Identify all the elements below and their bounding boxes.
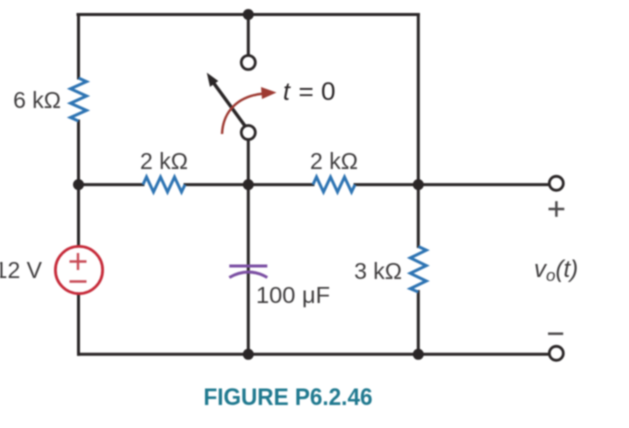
svg-text:FIGURE P6.2.46: FIGURE P6.2.46	[204, 384, 373, 411]
svg-text:6 kΩ: 6 kΩ	[13, 87, 61, 113]
svg-text:3 kΩ: 3 kΩ	[354, 258, 402, 284]
svg-text:vo(t): vo(t)	[534, 256, 578, 285]
svg-text:12 V: 12 V	[0, 257, 43, 283]
svg-text:100 μF: 100 μF	[256, 282, 330, 308]
svg-text:t= 0: t= 0	[283, 78, 336, 106]
svg-text:2 kΩ: 2 kΩ	[310, 148, 358, 174]
svg-text:2 kΩ: 2 kΩ	[140, 148, 188, 174]
